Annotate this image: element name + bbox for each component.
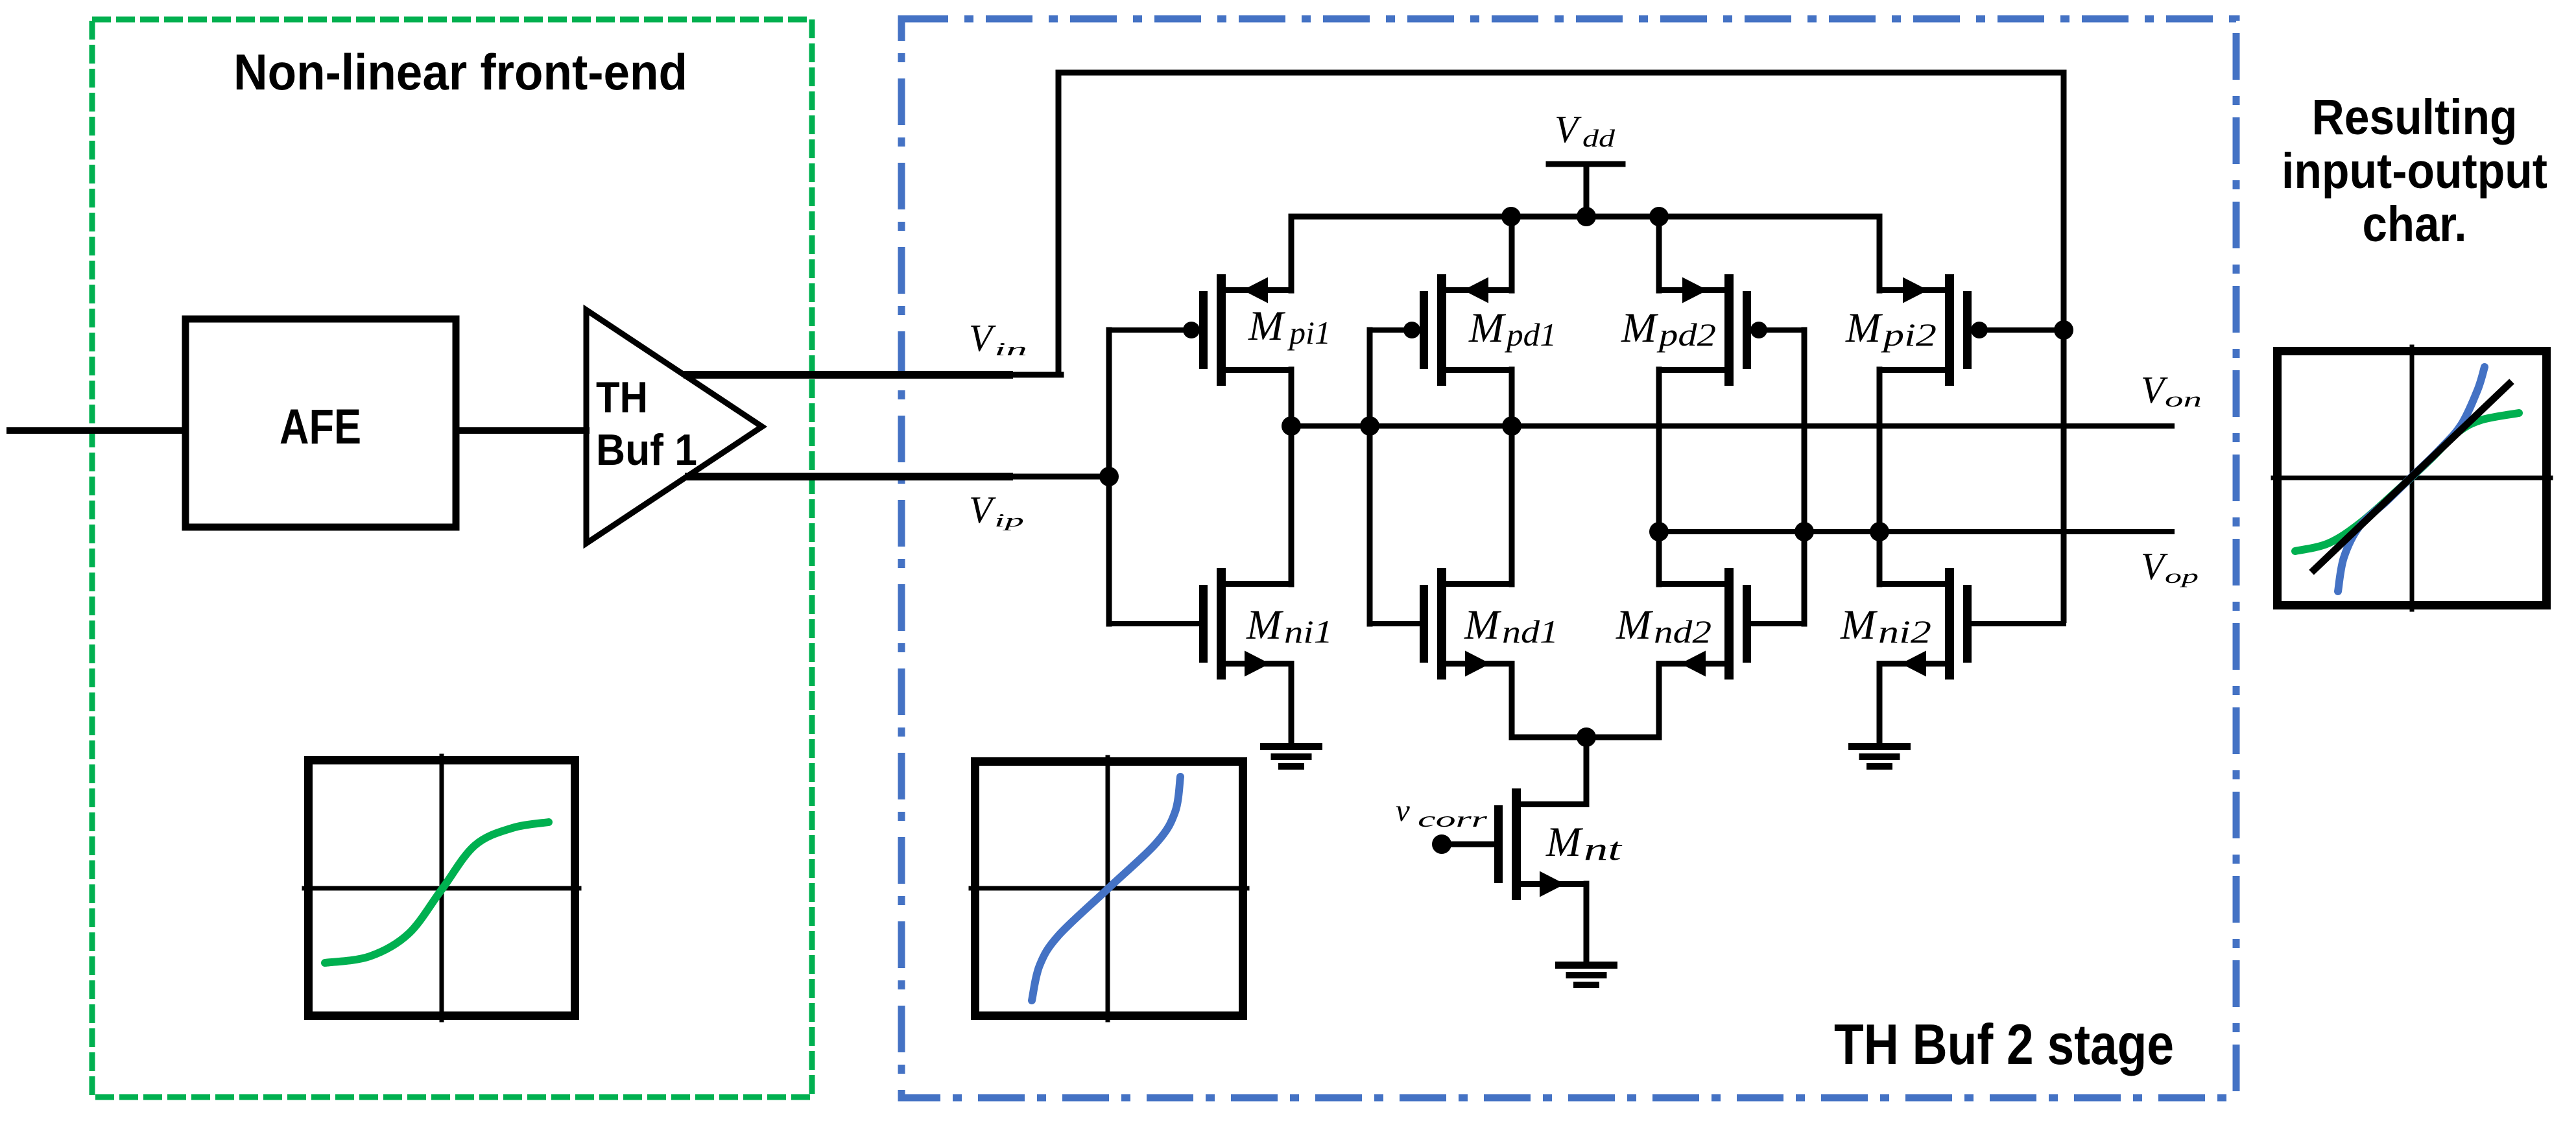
svg-text:v: v — [1396, 792, 1410, 828]
svg-text:corr: corr — [1418, 808, 1488, 832]
svg-text:M: M — [1246, 602, 1284, 648]
svg-text:Buf 1: Buf 1 — [596, 425, 697, 475]
svg-text:V: V — [2141, 368, 2168, 411]
svg-text:nd1: nd1 — [1502, 613, 1558, 650]
svg-text:on: on — [2165, 388, 2202, 412]
svg-text:ni1: ni1 — [1284, 613, 1333, 650]
svg-text:char.: char. — [2363, 196, 2467, 252]
svg-text:V: V — [2141, 545, 2168, 587]
svg-text:M: M — [1616, 602, 1654, 648]
svg-text:input-output: input-output — [2282, 143, 2547, 199]
svg-text:nd2: nd2 — [1654, 613, 1711, 650]
svg-text:M: M — [1248, 303, 1286, 349]
svg-text:Non-linear front-end: Non-linear front-end — [233, 43, 687, 100]
svg-text:V: V — [969, 316, 996, 359]
svg-text:V: V — [1555, 108, 1582, 150]
svg-text:nt: nt — [1584, 831, 1623, 867]
svg-text:M: M — [1545, 819, 1584, 866]
svg-text:V: V — [969, 488, 996, 531]
svg-text:in: in — [994, 339, 1027, 360]
svg-text:M: M — [1468, 305, 1507, 351]
svg-text:AFE: AFE — [280, 399, 361, 455]
svg-text:pi1: pi1 — [1287, 314, 1331, 351]
svg-text:pi2: pi2 — [1881, 316, 1937, 353]
svg-text:TH Buf 2 stage: TH Buf 2 stage — [1834, 1012, 2174, 1076]
svg-text:Resulting: Resulting — [2312, 89, 2518, 145]
svg-text:ip: ip — [994, 510, 1024, 531]
svg-text:dd: dd — [1582, 125, 1616, 152]
svg-text:pd1: pd1 — [1505, 316, 1556, 353]
svg-text:pd2: pd2 — [1656, 316, 1716, 353]
svg-text:M: M — [1845, 305, 1883, 351]
svg-text:TH: TH — [596, 373, 648, 422]
svg-text:M: M — [1464, 602, 1502, 648]
svg-text:op: op — [2165, 565, 2199, 587]
svg-text:ni2: ni2 — [1878, 613, 1931, 650]
svg-text:M: M — [1621, 305, 1659, 351]
svg-text:M: M — [1840, 602, 1878, 648]
